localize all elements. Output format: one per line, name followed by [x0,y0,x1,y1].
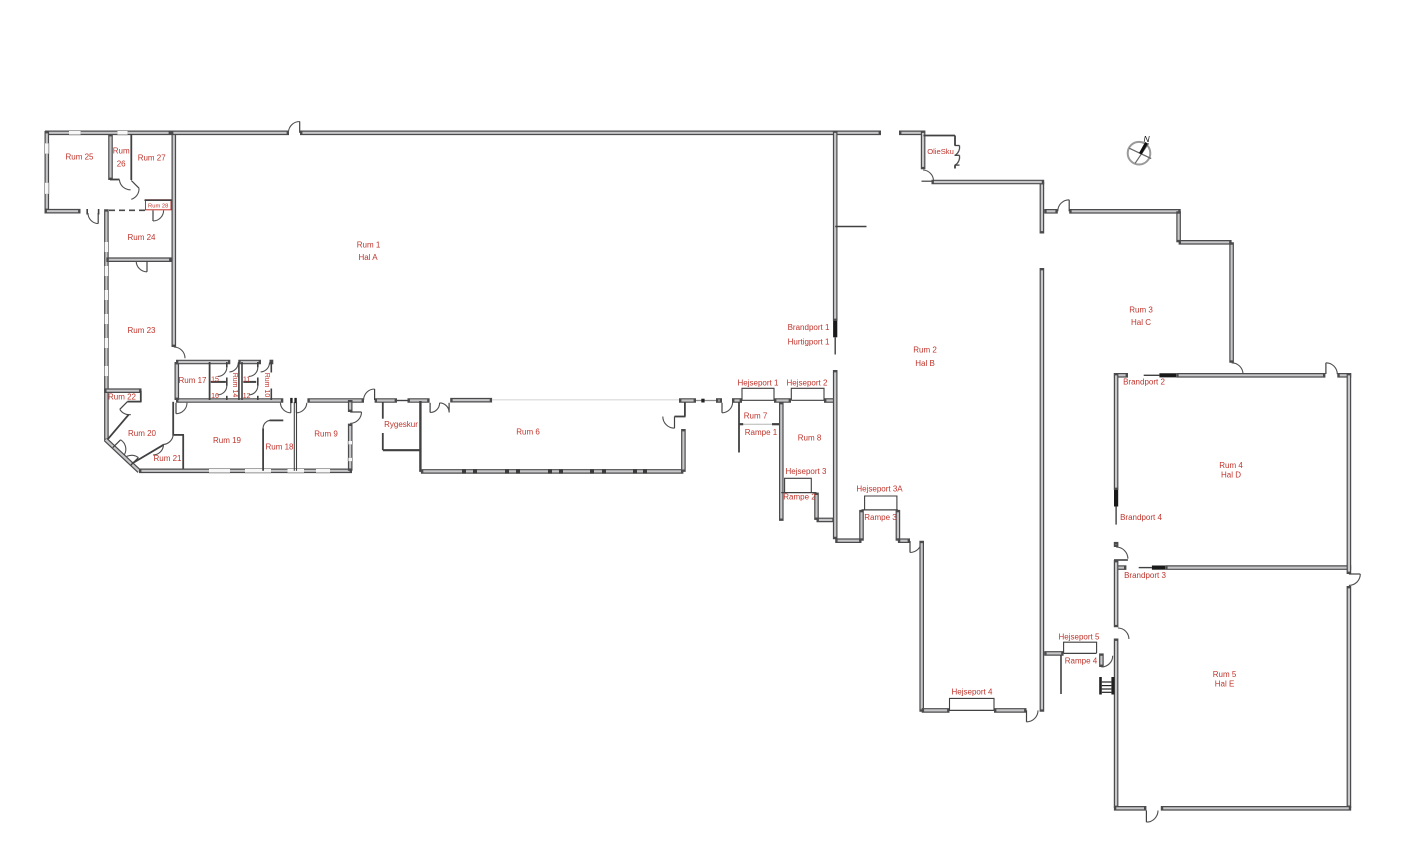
wall: Hal A top right piece [899,131,925,136]
svg-text:Rampe 4: Rampe 4 [1065,657,1098,666]
wall: divider Rum26|Rum27 (x=131.3) [130,134,132,180]
wall: cluster left (x=176.8) [175,362,180,400]
hejseport2 bracket+port [791,388,824,400]
wall: HalD left (x=1116.1) [1114,373,1119,490]
door: cluster top arcs (Rum14, Rum10) [229,363,269,373]
svg-text:Hejseport 3: Hejseport 3 [786,467,827,476]
svg-text:Rum 19: Rum 19 [213,436,242,445]
wall: Rum6 right (x=683.4) + NE notch [663,402,686,472]
wall: OlieSku left vertical (x=923.1) [921,131,926,170]
svg-text:Hejseport 3A: Hejseport 3A [856,485,903,494]
wall: Rum24/23 left outer (x=106.4) with windows [104,209,109,441]
door: Rum9 right wall arc [350,412,361,423]
hejseport3 port+bracket [781,478,816,492]
svg-text:Rum 6: Rum 6 [516,428,540,437]
svg-text:Hal C: Hal C [1131,318,1151,327]
wall: Rygeskur [383,402,421,450]
wall: H3A right post + wall [898,510,910,541]
wall: Hejseport5 wall (y=653.4) [1044,651,1063,656]
svg-text:Rum 14: Rum 14 [231,373,238,398]
svg-text:Hal B: Hal B [915,359,935,368]
wall: HalB left lower [833,370,838,539]
svg-text:Rum 3: Rum 3 [1129,306,1153,315]
wall: Rum7 left (x=739) [738,402,740,453]
brandport1 black bar [833,321,837,337]
rampe4 left line [1060,655,1062,694]
door: arc x722-732 [722,402,733,412]
svg-text:26: 26 [117,159,126,168]
svg-text:Rum 25: Rum 25 [65,153,94,162]
wall: Rampe2 right post + Rum8 bottom [817,493,835,520]
wall: HalB left upper [833,131,838,322]
svg-text:Rum 8: Rum 8 [798,434,822,443]
brandport1 port line [834,337,836,354]
wall: HalE bottom (y=808.3) [1114,806,1351,811]
door: Hal A top arc (x289-300) [288,122,299,133]
svg-text:Rum 23: Rum 23 [127,326,156,335]
wall: cluster top (y=362) [176,360,273,365]
door arcs: rooms 15,16,11,12 [218,367,258,394]
svg-text:Rum 21: Rum 21 [153,454,182,463]
wall: HalB lower-left vertical (x=921.7) [919,541,924,712]
door: Rum28 arc below [153,210,164,221]
wall: HalB bottom (y=710.4) [922,708,1027,713]
door: Rum27 door (diagonal leaf + arc) [131,181,139,200]
svg-text:Rum 4: Rum 4 [1219,461,1243,470]
door: Rum22 diagonal door [120,402,131,415]
wall: Hal A top (y=132.8) [171,131,881,136]
compass symbol [1128,134,1152,165]
stairs symbol [1099,677,1114,695]
door: arc near x910 [910,541,922,553]
wall: HalD top-right corner [1337,373,1351,378]
svg-text:11: 11 [243,377,250,384]
svg-text:Hurtigport 1: Hurtigport 1 [788,337,830,346]
wall: HalD|HalE divider (y=567.6) [1114,565,1351,570]
svg-text:Hal E: Hal E [1215,680,1235,689]
svg-text:Rampe 2: Rampe 2 [783,493,816,502]
brandport4 port line [1115,507,1117,525]
wall: Rum6 bottom (y=471.4) with mullion ticks [421,469,684,473]
door: HalC top arc [1058,200,1069,212]
door: right wall arc below divider [1349,574,1360,585]
svg-text:Rum 10: Rum 10 [263,373,270,398]
wall: Rum21 NW diagonal [132,445,164,464]
svg-text:Hejseport 4: Hejseport 4 [952,688,993,697]
door: Rum20 SE arc [163,434,173,444]
wall: HalC step [1179,211,1232,362]
wall: Rum22 top (y=390.7) [104,388,141,393]
brandport4 black bar [1114,490,1118,507]
door: post arc [1101,656,1112,667]
wall: Rum26 bottom + door arc [110,180,131,190]
wall: main row wall y=400.5 thick segments [176,398,838,403]
wall: outer diagonal SW corner [106,440,140,472]
svg-text:N: N [1144,134,1151,144]
wall: HalC top (y=211.3) [1044,209,1181,214]
svg-text:Rum 24: Rum 24 [127,233,156,242]
svg-text:Brandport 2: Brandport 2 [1123,378,1165,387]
svg-text:Rum 20: Rum 20 [128,429,157,438]
wall: HalB bottom-left jog [835,510,861,541]
room box: Rum 28 (red-bordered) [145,200,172,210]
door: arc x364-374 (above row wall) [364,389,375,400]
wall: Rum25 left outer (x=46.8) with windows [44,131,49,211]
wall: Rum18 walls [263,402,296,471]
wall: Rum25 bottom (y=211.2) [45,209,81,214]
wall: Rum6 left (x=420.4) [419,401,421,472]
hejseport3A port+bracket [862,496,898,510]
wall: Rum24 bottom (y=259.7) [106,257,171,262]
svg-text:Hejseport 1: Hejseport 1 [738,378,779,387]
wall: divider Rum25|Rum26 (x=110.5) [108,134,113,180]
wall: OlieSku box [924,136,956,169]
door: OlieSku bottom-left arc [922,170,934,181]
svg-text:Rum 5: Rum 5 [1213,670,1237,679]
wall: HalD/E right (x=1348.9) [1347,373,1352,808]
svg-text:Rum 28: Rum 28 [148,204,168,210]
door: HalC bottom-right arc [1232,363,1243,374]
svg-text:Hejseport 2: Hejseport 2 [787,378,828,387]
svg-text:Rum 22: Rum 22 [108,393,137,402]
svg-text:Rum 7: Rum 7 [744,411,768,420]
door: HalE bottom arc [1146,811,1158,823]
door: Rum19 top-left arc [176,403,187,414]
svg-text:Rampe 1: Rampe 1 [745,428,778,437]
door: HalD top-right arc [1326,363,1337,374]
wall: Rum20|21 divider (x=173.2,y434.9,x183.2) [172,402,184,471]
svg-text:Rum 1: Rum 1 [357,241,381,250]
wall: Rum9 right (x=350.2) with windows [348,400,353,471]
wall: HalD top (y=375.3) [1114,373,1326,378]
door: HalB bottom-right arc [1027,710,1039,722]
svg-text:16: 16 [211,393,219,400]
hejseport5 port+bracket [1064,642,1097,653]
wall: diagonal interior Rum20 NW [108,415,129,440]
svg-text:Rum 27: Rum 27 [138,153,167,162]
svg-text:Brandport 1: Brandport 1 [788,323,830,332]
rampe1 line [739,423,780,425]
door: OlieSku zigzag flaps [955,146,960,166]
faint line: Rum6|HalA boundary [492,399,679,401]
hejseport4 port+bracket [950,698,995,710]
door: Rum24 entry arc (x82-98) [87,209,98,224]
svg-text:Hal A: Hal A [358,253,378,262]
wall: band x450-492 (y=400.2) [450,398,492,403]
dashed wall: Rum25|Rum24 (y=210.3) [109,209,145,211]
wall: HalD left stub + door arc [1114,542,1128,560]
svg-text:12: 12 [243,393,251,400]
svg-text:Rum: Rum [113,147,130,156]
wall: HalE left (x=1116.1) [1114,560,1119,808]
room labels (red) [65,147,1243,697]
wall: cluster verticals [210,362,272,400]
svg-text:Rum 17: Rum 17 [178,376,207,385]
door: double door on outer diagonal [113,440,139,466]
wall: Rum25-27 block top (y=132.8, x45-171) with windows [45,131,171,136]
door: Rum24->Rum23 arc [136,261,147,272]
wall: OlieSku/HalB bottom thick (y=182) [932,180,1045,185]
wall: HalB right (x=1041.9) [1040,182,1045,712]
door: HalE left arc [1118,628,1129,639]
svg-text:15: 15 [211,377,219,384]
svg-text:Hejseport 5: Hejseport 5 [1059,632,1100,641]
stub wall y=226.5 [835,226,866,228]
svg-text:Rygeskur: Rygeskur [384,420,418,429]
wall: cluster dividers 15|16 and 11|12 [211,381,256,383]
door: row double door posts+arcs (x283-307) [280,398,306,413]
wall: office row bottom (y=470.8) with windows [139,468,352,473]
wall: H5 right post [1099,653,1104,667]
svg-text:Rampe 3: Rampe 3 [864,513,897,522]
door: Hal A left wall bottom arc [174,347,185,358]
wall: row wall thin pieces [397,400,716,402]
svg-text:Rum 18: Rum 18 [265,443,294,452]
column dot (x703) [701,399,704,403]
svg-text:Brandport 4: Brandport 4 [1120,513,1162,522]
door: double door x429-450 (arcs below) [430,403,449,413]
wall: Hal A left / Rum27-24-23 right (x=173.8) [172,131,177,348]
svg-text:Rum 9: Rum 9 [314,430,338,439]
svg-text:Brandport 3: Brandport 3 [1124,571,1166,580]
wall: Rum22 right + bottom [128,391,142,402]
wall: Rum8 left (x=781.3) [779,402,784,521]
door: Rum21 NW arc [153,445,164,455]
svg-text:Hal D: Hal D [1221,471,1241,480]
svg-text:Rum 2: Rum 2 [913,346,937,355]
svg-text:OlieSku: OlieSku [927,147,954,156]
hejseport1 bracket+port [742,388,774,400]
